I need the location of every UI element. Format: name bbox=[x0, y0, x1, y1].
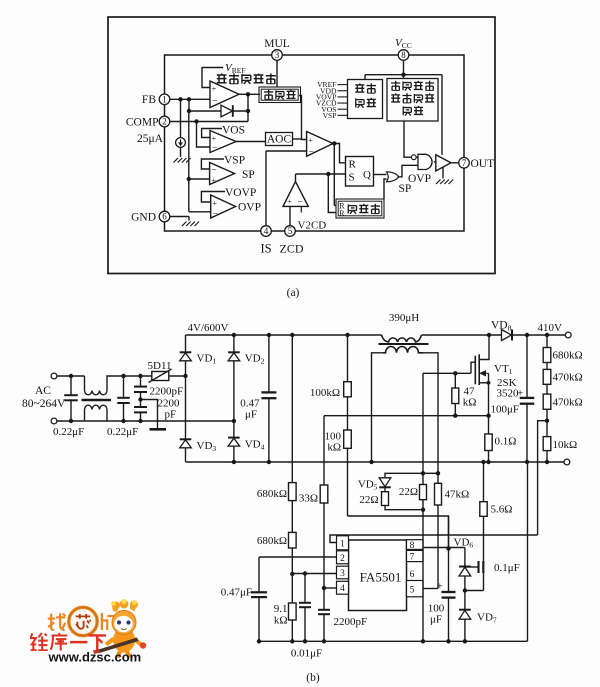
svg-text:Q: Q bbox=[363, 169, 371, 181]
svg-text:470kΩ: 470kΩ bbox=[553, 397, 583, 409]
svg-text:OUT: OUT bbox=[471, 158, 495, 170]
svg-text:R: R bbox=[339, 208, 345, 218]
svg-text:+: + bbox=[287, 196, 292, 206]
label VOS bbox=[222, 125, 245, 137]
svg-text:kΩ: kΩ bbox=[463, 397, 477, 409]
PWM comparator output node wires to RS latch and timer bbox=[332, 141, 345, 205]
5.6 ohm dropper bbox=[480, 460, 487, 591]
ground return riser to bottom rail bbox=[527, 462, 529, 641]
Y capacitor 2200pF lower bbox=[134, 407, 147, 421]
pin box 8 bbox=[407, 540, 424, 552]
IC boundary box bbox=[165, 55, 465, 231]
pin 6 digit bbox=[410, 570, 415, 580]
svg-text:kΩ: kΩ bbox=[327, 442, 341, 454]
multiplier output wire down to PWM comparator bbox=[299, 96, 307, 140]
haversine sense vertical from top rail bbox=[290, 333, 294, 483]
CS resistor 33 ohm bbox=[320, 485, 328, 588]
svg-text:(b): (b) bbox=[306, 672, 320, 684]
svg-text:4: 4 bbox=[340, 584, 345, 594]
svg-text:0.1Ω: 0.1Ω bbox=[495, 436, 517, 448]
svg-text:5: 5 bbox=[410, 586, 415, 596]
current source 25uA bbox=[176, 99, 186, 157]
label 4V/600V bbox=[188, 322, 229, 334]
control ground rail bbox=[259, 640, 528, 642]
thermistor 5D11 bbox=[149, 369, 172, 383]
pin 8 VCC bbox=[398, 50, 409, 61]
svg-text:(a): (a) bbox=[287, 287, 300, 299]
pin 2 COMP wire bbox=[170, 119, 248, 123]
svg-text:47kΩ: 47kΩ bbox=[445, 489, 470, 501]
ZCD wire to pin5 bbox=[423, 505, 438, 589]
svg-text:VOVP: VOVP bbox=[225, 187, 256, 199]
AC line bottom wire bbox=[57, 419, 234, 423]
svg-text:FB: FB bbox=[142, 94, 156, 106]
svg-text:0.22μF: 0.22μF bbox=[53, 426, 84, 438]
svg-text:4: 4 bbox=[264, 226, 269, 236]
S input wire from ZCD comparator bbox=[296, 172, 346, 176]
resistor 680k upper sense bbox=[289, 483, 297, 533]
pin box 3 bbox=[337, 566, 349, 579]
wire 5D11 to bridge bbox=[169, 374, 188, 378]
source node horizontal wire bbox=[324, 414, 491, 418]
common mode choke bottom winding bbox=[85, 405, 108, 421]
pin3 MUL row bbox=[292, 571, 336, 575]
svg-text:+: + bbox=[212, 133, 217, 143]
feedback tap wire bbox=[538, 421, 547, 535]
label 0.1 Ohm bbox=[495, 436, 517, 448]
label 2200 pF bbox=[158, 398, 181, 421]
svg-text:kΩ: kΩ bbox=[274, 615, 288, 627]
OR output wire up to NAND bbox=[399, 165, 418, 177]
VD6 to junction wire bbox=[463, 576, 467, 593]
aux winding left end wire to bottom rail bbox=[369, 353, 383, 464]
svg-text:390μH: 390μH bbox=[389, 312, 419, 324]
VOVP flag bracket bbox=[201, 192, 225, 203]
svg-text:5: 5 bbox=[288, 226, 293, 236]
svg-text:+: + bbox=[212, 84, 217, 94]
pin 3 MUL riser bbox=[276, 60, 278, 87]
diode VD5 bbox=[379, 478, 391, 488]
AOC output wire bbox=[293, 138, 302, 140]
OVP minus input wire bbox=[189, 211, 211, 213]
pin box 4 bbox=[337, 581, 349, 594]
svg-text:33Ω: 33Ω bbox=[299, 493, 318, 505]
resistor 680k output bbox=[543, 348, 551, 370]
pin 7 OUT bbox=[459, 158, 470, 169]
svg-text:OVP: OVP bbox=[408, 173, 431, 185]
svg-text:FA5501: FA5501 bbox=[360, 570, 402, 585]
pin2 COMP row bbox=[259, 556, 337, 558]
svg-text:AOC: AOC bbox=[267, 134, 292, 146]
VCC distribution wire bbox=[365, 60, 442, 155]
output voltage divider top wire bbox=[545, 333, 549, 348]
svg-text:0.01μF: 0.01μF bbox=[291, 648, 322, 660]
svg-text:+: + bbox=[517, 388, 523, 400]
svg-text:VSP: VSP bbox=[224, 155, 245, 167]
label 390uH bbox=[389, 312, 419, 324]
svg-text:V2CD: V2CD bbox=[298, 220, 327, 232]
resistor 470k lower bbox=[543, 394, 551, 437]
label 0.47 uF bbox=[240, 398, 260, 421]
svg-text:3: 3 bbox=[340, 569, 345, 579]
label AC 80~264V bbox=[22, 385, 66, 410]
driver ground stub bbox=[436, 167, 453, 184]
label 410V bbox=[538, 322, 563, 334]
diode VD7 bbox=[459, 591, 471, 644]
source sense wire down to 33 ohm bbox=[323, 416, 325, 485]
wire VREF to error amp + input bbox=[202, 68, 223, 88]
startup resistor 100k upper bbox=[344, 333, 352, 430]
left sense vertical (FB chain) bbox=[187, 111, 191, 212]
svg-text:AC: AC bbox=[35, 385, 51, 397]
svg-text:25μA: 25μA bbox=[137, 133, 164, 145]
diode VD2 bbox=[228, 352, 240, 361]
output terminal bottom bbox=[564, 459, 570, 465]
VOS minus input wire from COMP bbox=[197, 122, 211, 148]
Y cap midpoint earth wire bbox=[141, 400, 167, 430]
OR gate bbox=[387, 172, 399, 182]
resistor 470k upper bbox=[543, 369, 551, 394]
outer frame of block diagram (a) bbox=[108, 17, 495, 274]
VD5 branch wire upper bbox=[385, 473, 423, 478]
diode VD6 bbox=[459, 567, 471, 577]
diode VD1 bbox=[180, 352, 192, 361]
label plus and 100uF bbox=[490, 388, 523, 416]
label MUL bbox=[264, 38, 290, 50]
pin 3 MUL bbox=[272, 50, 283, 61]
gate to driver wire bbox=[434, 161, 436, 163]
label VOVP bbox=[225, 187, 256, 199]
IC FA5501 body bbox=[349, 540, 407, 611]
output terminal top bbox=[565, 332, 571, 338]
svg-text:COMP: COMP bbox=[126, 117, 159, 129]
svg-text:680kΩ: 680kΩ bbox=[553, 350, 583, 362]
reference voltage box (Chinese) bbox=[348, 80, 383, 119]
multiplier box (Chinese) bbox=[259, 87, 301, 103]
svg-text:5.6Ω: 5.6Ω bbox=[491, 504, 513, 516]
comparator SP bbox=[210, 163, 235, 186]
VOS output wire to AOC bbox=[236, 141, 266, 143]
label 100k bbox=[310, 387, 340, 399]
diode VD3 bbox=[180, 439, 192, 448]
label 25uA bbox=[137, 133, 164, 145]
pin box 2 bbox=[337, 551, 349, 564]
svg-text:3520: 3520 bbox=[497, 388, 520, 400]
VCC cap 100uF bbox=[442, 592, 456, 644]
boost inductor primary winding bbox=[382, 335, 422, 342]
svg-text:−: − bbox=[213, 210, 218, 220]
auxiliary winding bbox=[383, 347, 423, 353]
AC line top wire bbox=[57, 374, 85, 378]
common mode choke top winding bbox=[85, 376, 125, 395]
label 2200pF bbox=[150, 386, 184, 398]
PWM comparator minus input wire from IS bbox=[266, 150, 307, 152]
svg-text:0.22μF: 0.22μF bbox=[107, 426, 138, 438]
svg-text:80~264V: 80~264V bbox=[22, 398, 66, 410]
gate drive horizontal wire bbox=[423, 371, 471, 375]
label error amplifier (Chinese) bbox=[217, 73, 276, 84]
svg-text:VSP: VSP bbox=[323, 111, 337, 120]
svg-text:4V/600V: 4V/600V bbox=[188, 322, 229, 334]
startup wire to VCC node bbox=[348, 516, 449, 549]
label 100 kOhm lower bbox=[325, 431, 342, 454]
pin box 5 bbox=[407, 581, 424, 597]
svg-text:6: 6 bbox=[410, 570, 415, 580]
ZCD comparator V2CD bbox=[283, 174, 308, 213]
svg-text:+: + bbox=[211, 175, 216, 185]
svg-text:R: R bbox=[349, 159, 357, 171]
svg-text:680kΩ: 680kΩ bbox=[257, 488, 287, 500]
watermark dzsc logo bbox=[31, 599, 147, 665]
svg-text:−: − bbox=[212, 97, 217, 107]
label VD2 bbox=[245, 353, 265, 366]
label SP bbox=[242, 169, 255, 181]
junction wire to 5.6ohm line bbox=[465, 590, 484, 592]
svg-text:μF: μF bbox=[245, 409, 257, 421]
DC bottom rail bbox=[186, 461, 565, 463]
VSP flag bracket bbox=[201, 159, 224, 169]
svg-text:0.47μF: 0.47μF bbox=[221, 587, 252, 599]
svg-text:www.dzsc.com: www.dzsc.com bbox=[48, 650, 142, 665]
output capacitor 100uF bbox=[520, 333, 535, 464]
PWM comparator bbox=[307, 132, 333, 158]
choke core bar bbox=[82, 399, 112, 402]
gate pulldown resistor 47k bbox=[452, 373, 459, 415]
error amp output wire to multiplier bbox=[239, 92, 260, 121]
ZCD feed 47k resistor bbox=[423, 471, 442, 505]
boost diode VD8 bbox=[502, 330, 513, 341]
filter cap 0.01uF bbox=[299, 574, 311, 644]
UVLO output wire with inverter bubble bbox=[404, 121, 418, 160]
svg-text:470kΩ: 470kΩ bbox=[553, 372, 583, 384]
svg-text:100kΩ: 100kΩ bbox=[310, 387, 340, 399]
Q output wire bbox=[374, 174, 387, 176]
output driver buffer bbox=[436, 155, 451, 171]
label V2CD bbox=[298, 220, 327, 232]
label OUT bbox=[471, 158, 495, 170]
RS latch box bbox=[346, 157, 374, 187]
svg-text:−: − bbox=[298, 198, 303, 208]
svg-text:9.1: 9.1 bbox=[274, 603, 288, 615]
svg-text:6: 6 bbox=[162, 212, 167, 222]
driver output wire bbox=[451, 162, 459, 164]
pin 1 FB wire bbox=[170, 97, 210, 101]
label 0.22uF bbox=[53, 426, 84, 438]
current sense resistor 0.1 ohm bbox=[485, 434, 492, 464]
svg-text:8: 8 bbox=[401, 50, 406, 60]
label VD4 bbox=[245, 439, 265, 452]
top wire to 5D11 bbox=[124, 374, 152, 378]
timer box (Chinese) bbox=[336, 199, 384, 218]
S node wire down to timer lower R bbox=[328, 174, 336, 213]
svg-text:VOS: VOS bbox=[222, 125, 245, 137]
svg-text:SP: SP bbox=[242, 169, 255, 181]
svg-text:+: + bbox=[308, 135, 313, 145]
timer output wire to OR gate bbox=[384, 179, 387, 199]
svg-text:3: 3 bbox=[275, 50, 280, 60]
label ZCD bbox=[280, 242, 304, 256]
svg-text:−: − bbox=[309, 148, 314, 158]
label OVP bbox=[238, 202, 261, 214]
undervoltage lockout box (Chinese) bbox=[387, 79, 438, 122]
comp cap 0.47uF bbox=[251, 557, 267, 644]
svg-text:2200pF: 2200pF bbox=[150, 386, 184, 398]
VD6 feed wire bbox=[464, 548, 466, 566]
pin 5 ZCD riser bbox=[289, 206, 291, 226]
comparator VOS bbox=[210, 131, 236, 155]
svg-text:22Ω: 22Ω bbox=[359, 494, 378, 506]
caption (b) bbox=[306, 672, 320, 684]
label 47 kOhm bbox=[463, 386, 477, 409]
Y capacitor 2200pF upper bbox=[134, 376, 147, 407]
MOSFET VT1 symbol bbox=[475, 354, 490, 385]
svg-text:IS: IS bbox=[260, 242, 271, 256]
svg-text:22Ω: 22Ω bbox=[399, 486, 418, 498]
svg-text:pF: pF bbox=[165, 409, 177, 421]
svg-text:−: − bbox=[212, 144, 217, 154]
svg-text:S: S bbox=[349, 172, 355, 184]
speedup resistor 22 ohm bbox=[382, 488, 424, 510]
label OVP at gate bbox=[408, 173, 431, 185]
pin 5 ZCD bbox=[285, 226, 296, 237]
label COMP bbox=[126, 117, 159, 129]
label VD8 bbox=[491, 320, 512, 333]
label VREF bbox=[225, 62, 246, 75]
label FB bbox=[142, 94, 156, 106]
label GND bbox=[131, 212, 156, 224]
svg-text:+: + bbox=[437, 581, 443, 593]
aux winding right end wire bbox=[423, 353, 438, 474]
SP plus input wire bbox=[189, 178, 210, 180]
compensation diode bbox=[221, 105, 233, 117]
svg-text:410V: 410V bbox=[538, 322, 563, 334]
resistor 10k bbox=[543, 437, 551, 465]
label VD3 bbox=[197, 440, 217, 453]
svg-text:2: 2 bbox=[162, 117, 167, 127]
label 2SK 3520 bbox=[497, 377, 520, 400]
VT1 gate lead bbox=[471, 362, 475, 373]
gate network vertical (OUT line) bbox=[421, 373, 425, 643]
pin box 7 bbox=[407, 550, 424, 562]
pin box 1 bbox=[337, 536, 349, 550]
VCC node vertical bbox=[446, 516, 450, 592]
AC input terminals bbox=[51, 373, 57, 424]
bridge left leg bbox=[185, 335, 187, 462]
pin4 IS row bbox=[322, 586, 337, 590]
svg-text:GND: GND bbox=[131, 212, 156, 224]
gate resistor 22 ohm bbox=[420, 485, 427, 500]
label VCC bbox=[395, 37, 412, 50]
svg-text:1: 1 bbox=[162, 95, 167, 105]
op-amp error amplifier bbox=[210, 81, 239, 108]
svg-text:5D11: 5D11 bbox=[148, 360, 172, 372]
startup resistor 100k lower bbox=[344, 430, 352, 516]
bulk capacitor 0.47uF bbox=[261, 333, 276, 464]
svg-text:SP: SP bbox=[399, 183, 412, 195]
capacitor 0.22uF input bbox=[64, 376, 78, 421]
svg-text:ZCD: ZCD bbox=[280, 242, 304, 256]
svg-text:7: 7 bbox=[462, 158, 467, 168]
svg-text:1: 1 bbox=[340, 540, 345, 550]
svg-text:7: 7 bbox=[410, 553, 415, 563]
svg-text:MUL: MUL bbox=[264, 38, 290, 50]
AOC box bbox=[266, 133, 293, 146]
MOSFET source down wire bbox=[488, 383, 490, 434]
timer R input wire bbox=[334, 205, 336, 207]
FB route wire bbox=[330, 535, 538, 543]
svg-text:10kΩ: 10kΩ bbox=[553, 439, 578, 451]
VOS comparator flag bracket bbox=[202, 129, 222, 138]
IS riser bbox=[265, 151, 267, 226]
pin circles 1 2 6 on left edge bbox=[159, 94, 170, 105]
svg-text:8: 8 bbox=[410, 541, 415, 551]
reference input labels VREF VDD VOVP VZCD VOS VSP bbox=[316, 80, 348, 120]
svg-text:μF: μF bbox=[430, 614, 442, 626]
pin 6 GND wire and ground bbox=[170, 217, 199, 227]
label SP at gate bbox=[399, 183, 412, 195]
bridge right leg bbox=[232, 333, 236, 464]
label VT1 bbox=[494, 363, 513, 376]
filter cap 2200pF on IS bbox=[318, 588, 330, 644]
resistor 9.1k bbox=[289, 572, 297, 644]
label 0.22uF second bbox=[107, 426, 138, 438]
ground below current source bbox=[174, 158, 191, 163]
inductor core bars bbox=[379, 343, 429, 345]
diode VD4 bbox=[228, 438, 240, 447]
label IS bbox=[260, 242, 271, 256]
label VD6 bbox=[454, 537, 474, 550]
svg-text:680kΩ: 680kΩ bbox=[257, 535, 287, 547]
label 5D11 bbox=[148, 360, 172, 372]
pin 4 IS bbox=[261, 226, 272, 237]
comparator OVP bbox=[211, 195, 236, 220]
svg-text:2200pF: 2200pF bbox=[334, 616, 368, 628]
svg-text:100μF: 100μF bbox=[490, 404, 519, 416]
capacitor 0.22uF second bbox=[117, 374, 130, 421]
svg-text:+: + bbox=[212, 198, 217, 208]
caption (a) bbox=[287, 287, 300, 299]
label VSP bbox=[224, 155, 245, 167]
NAND/AND gate bbox=[418, 154, 432, 169]
coupling cap 0.1uF bbox=[466, 561, 483, 573]
diode feedback row wire bbox=[187, 99, 250, 113]
MOSFET VT1 drain wire bbox=[479, 333, 491, 360]
svg-text:2: 2 bbox=[340, 554, 345, 564]
resistor 680k lower sense bbox=[289, 532, 297, 574]
svg-text:OVP: OVP bbox=[238, 202, 261, 214]
DC top rail bbox=[186, 334, 566, 336]
pin8 VCC row bbox=[423, 547, 465, 549]
svg-text:0.1μF: 0.1μF bbox=[494, 562, 520, 574]
label VD1 bbox=[197, 353, 217, 366]
